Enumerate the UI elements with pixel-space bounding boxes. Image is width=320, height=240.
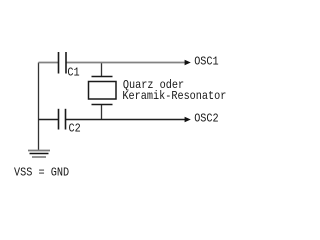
svg-text:C2: C2: [69, 122, 81, 136]
svg-text:C1: C1: [67, 66, 79, 80]
svg-text:VSS = GND: VSS = GND: [14, 165, 69, 179]
svg-text:OSC1: OSC1: [194, 55, 219, 69]
svg-text:Keramik-Resonator: Keramik-Resonator: [122, 89, 226, 103]
svg-text:OSC2: OSC2: [194, 112, 219, 126]
